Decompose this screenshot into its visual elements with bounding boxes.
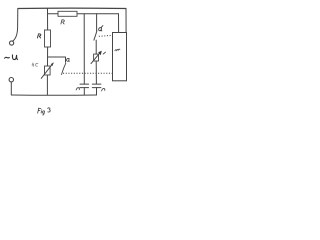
wire lower terminal to bottom rail — [10, 82, 12, 95]
wire C4 to bottom rail — [96, 88, 98, 95]
source label ~u — [5, 55, 18, 60]
label a2 — [99, 26, 103, 31]
wire C3 to bottom rail — [83, 88, 85, 95]
wire branch x84 vertical — [83, 14, 85, 84]
wire left drop to upper terminal — [13, 9, 18, 42]
variable arrow through C2 — [91, 52, 101, 64]
wire top rail drop to box — [125, 9, 127, 33]
wire C2 to C4 — [95, 61, 97, 84]
label m inside box — [115, 49, 120, 51]
wire switch a2 to C2 — [95, 40, 97, 54]
wire left branch vertical upper — [47, 9, 49, 31]
resistor R1 horizontal — [58, 11, 77, 16]
mechanical link dotted line upper — [99, 34, 112, 37]
variable arrow through C1 — [41, 63, 53, 78]
capacitor C4 plates — [92, 84, 101, 88]
label C2 — [103, 52, 105, 54]
wire top rail — [18, 7, 126, 9]
wire branch x96 upper — [96, 14, 98, 31]
wire bottom rail — [11, 94, 96, 96]
resistor R2 vertical — [45, 30, 51, 47]
wire rail2 horizontal y14 — [48, 13, 119, 15]
label C4 mark — [102, 88, 105, 90]
label C3 mark — [76, 88, 79, 90]
switch a2 lever — [94, 31, 97, 40]
label R2 — [37, 34, 40, 38]
label C1 — [32, 63, 38, 67]
variable capacitor C2 plates — [94, 54, 99, 61]
wire rail2 drop to box — [118, 14, 120, 33]
wire between R2 and C1 — [47, 47, 49, 66]
switch a1 lever — [62, 63, 66, 74]
caption Fig. 3 — [38, 108, 51, 115]
variable capacitor C1 body — [45, 66, 51, 75]
terminal upper — [10, 41, 14, 45]
wire branch to switch a1 — [48, 57, 66, 62]
mechanical link dotted line lower — [63, 72, 112, 74]
device box (tube) — [113, 33, 127, 81]
label a1 — [67, 58, 70, 61]
capacitor C3 plates — [80, 84, 89, 88]
terminal lower — [9, 78, 13, 82]
label R1 — [61, 20, 64, 24]
wire C1 to bottom rail — [46, 75, 48, 95]
